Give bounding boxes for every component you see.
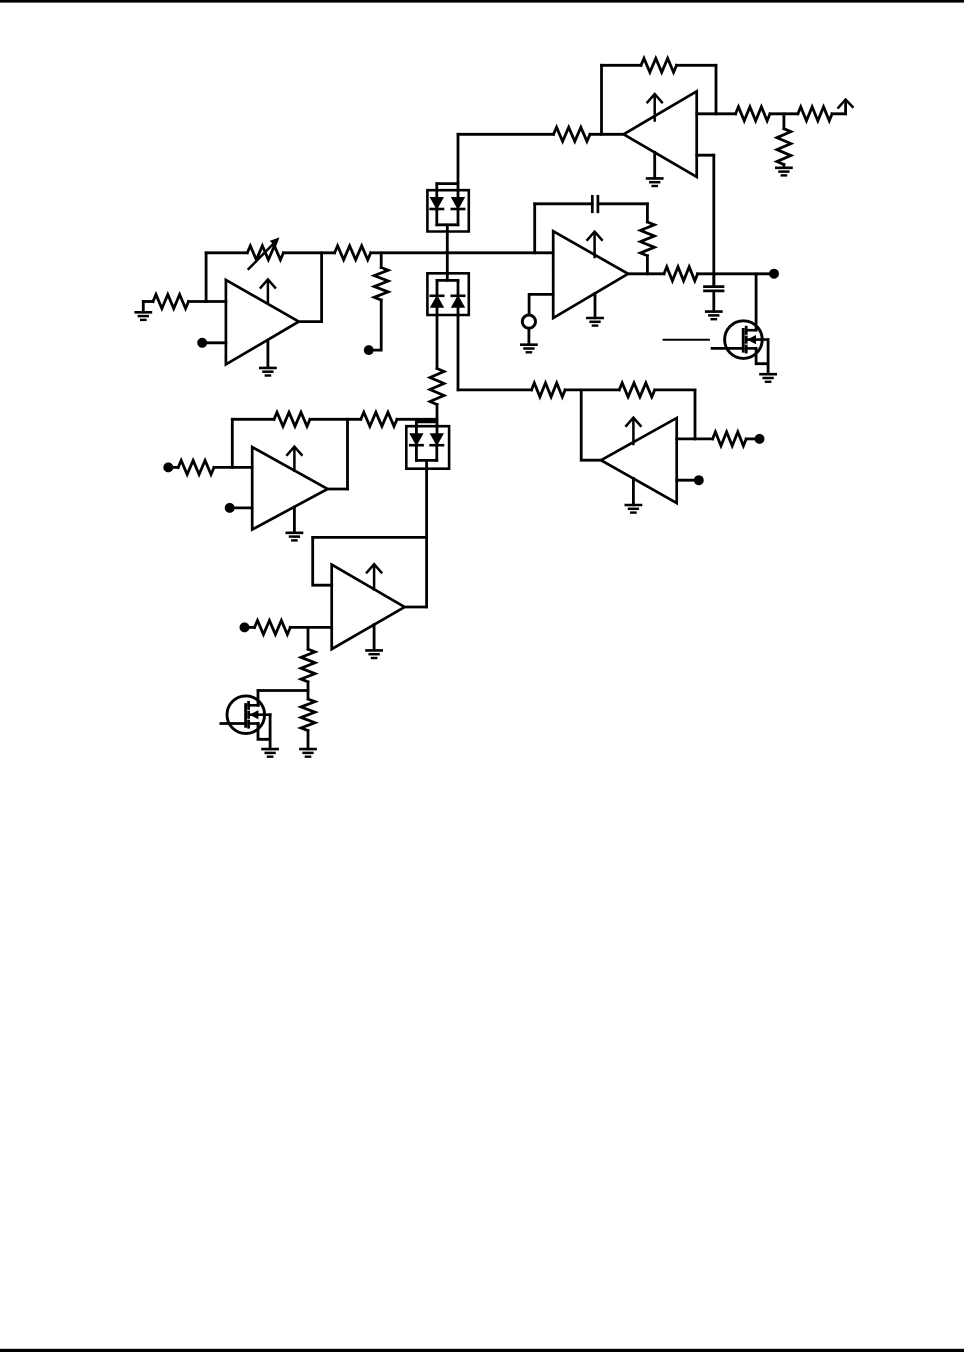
wire DB3 exit down to U6 loop [425,460,428,537]
wire DB2 right exit down [457,307,460,390]
DB1 top tie bar [437,182,458,185]
wire U1 feedback left vertical [600,65,603,134]
wire R18 to U6 [290,626,331,629]
wire dot to R15 [173,466,178,469]
ground below input port [521,328,536,352]
wire R16 to R17 [310,418,361,421]
resistor R9 [430,369,444,405]
ground below U5 [287,507,302,540]
wire Q2 drain up [257,691,260,706]
wire U1 non-inverting input [697,154,714,157]
wire feedback top left [602,64,642,67]
wire U3 output up leg [581,390,601,460]
ground below U6 [367,625,382,658]
diode pack DB1 box [427,190,468,231]
DB1 left column upper [435,184,438,198]
wire U3 node to R12 [695,437,713,440]
wire feedback top left [232,418,274,421]
page bottom border line [0,1349,964,1352]
wire feedback right vertical [715,65,718,114]
wire U2 feedback left vertical [205,253,208,302]
wire U5 feedback left vertical [231,419,234,467]
wire U3 lower terminal [677,479,695,482]
DB3 left column lower [415,445,418,460]
op-amp U1 [624,91,697,177]
wire U1 output [590,133,624,136]
resistor R19 (divider top) [301,649,315,682]
wire Q2 body down [269,715,272,749]
ground below R20 [300,731,315,757]
wire U4 output [628,272,664,275]
wire R14 to output node [698,272,769,275]
wire R15 to U5 [214,466,252,469]
wire dot to R18 [249,626,255,629]
DB2 left column upper [436,280,439,295]
resistor R12 (U3 output) [713,432,747,446]
resistor R6 (U2 input) [153,295,189,309]
wire U6 feedback left vertical [313,537,332,585]
diode D3b [431,434,443,445]
transistor Q2 [227,696,270,734]
wire U4 non-inverting input [529,294,553,314]
ground below R4 [776,165,791,176]
resistor R5 (U1 output) [554,127,590,141]
variable resistor RV1 [247,237,283,269]
resistor R16 (U5 feedback) [274,412,310,426]
ground below U4 [587,293,602,325]
diode D2a [431,296,443,307]
wire signal bus [371,251,554,254]
capacitor C2 [705,274,724,312]
resistor R18 (U6 input) [255,620,291,634]
wire ground to R6 [143,300,153,303]
op-amp U2 [226,279,299,364]
wire U1 input down to C2 node [712,155,715,286]
resistor R7 (bus) [335,246,371,260]
resistor R1 (U1 feedback) [641,58,677,72]
node output terminal dot B [769,269,779,279]
wire RV1 to node [283,251,334,254]
wire U6 feedback right vertical [425,537,428,607]
resistor R8 (hanging) [374,253,388,300]
wire R2 to node A [770,112,798,115]
ground below U3 [626,478,641,512]
DB1 right column lower [457,209,460,225]
wire DB2 to R10 [458,388,532,391]
wire R8 down [371,300,382,350]
diode D2b [452,296,464,307]
wire R13 to output [646,256,649,274]
diode D1a [431,198,443,209]
diode D1b [452,198,464,209]
node output terminal dot [755,434,765,444]
wire divider node [307,682,310,699]
node U5 input terminal dot [163,462,173,472]
wire feedback right vertical [346,419,349,489]
ground below U1 [647,152,662,186]
transistor Q1 [725,321,768,359]
wire C1 to right vertical [598,202,648,205]
ground below Q2 [263,749,278,757]
node terminal dot below R8 [364,345,374,355]
wire gate label line [664,339,709,341]
wire Q1 source step [756,348,768,363]
DB1 left column lower [435,209,438,225]
resistor R3 [798,107,832,121]
wire U6 feedback top [313,536,427,539]
DB3 bottom tie bar [416,459,436,462]
wire U3 inverting input stub [677,437,695,440]
diode pack DB3 box [406,426,449,469]
wire DB1 to signal bus [446,225,449,253]
wire Q1 gate stub [712,347,743,350]
wire bus into diode pack DB2 [446,253,449,281]
wire R17 to diode pack DB3 [397,418,437,421]
wire down to U3 input [694,390,697,439]
wire R9 into diode pack DB3 [436,405,439,434]
wire down into diode pack D1 [457,134,460,198]
DB3 top tie bar [416,420,436,423]
node U6 input terminal dot [240,622,250,632]
op-amp U4 [553,231,628,318]
wire feedback top to C1 [535,202,593,205]
node U5 lower input dot [225,503,253,513]
wire U6 output [405,606,427,609]
wire U2 output up to bus [320,253,323,322]
wire feedback top right [677,64,717,67]
resistor R13 (U4 feedback) [640,222,654,256]
resistor R10 [532,383,566,397]
ground below U2 [260,341,275,376]
wire divider down [307,627,310,649]
wire feedback to RV1 [206,251,247,254]
wire R3 to input arrow [832,112,846,115]
node U3 lower terminal dot [694,475,704,485]
wire R5 to diode pack D1 [458,133,554,136]
op-amp U5 [252,447,327,530]
DB3 right column lower [435,445,438,460]
resistor R11 [619,383,655,397]
ground below Q1 [761,374,776,382]
ground at U2 input [136,302,151,320]
wire R6 to U2 [189,300,226,303]
wire R12 to output dot [746,437,755,440]
DB2 top tie bar [437,279,458,282]
wire U1 input to R2 [716,112,736,115]
diode pack DB2 box [427,273,468,315]
DB2 right column upper [457,280,460,295]
wire R11 right [655,388,695,391]
wire R10 to R11 [565,388,619,391]
resistor R4 (to ground) [777,114,791,165]
op-amp U6 [332,564,405,649]
resistor R20 (divider bottom) [301,699,315,731]
resistor R14 (U4 output) [664,267,698,281]
wire DB2 left exit to R9 [436,307,439,369]
wire U5 output [328,488,348,491]
input port circle [522,315,535,328]
wire Q1 body down [767,340,770,374]
DB3 left column upper [415,422,418,434]
wire U4 feedback left vertical [533,204,536,253]
wire Q2 gate stub [221,722,246,725]
input terminal arrow (up) [838,100,852,114]
wire Q1 drain up to output node [755,274,758,330]
wire node to Q2 drain [258,689,308,692]
wire U1 inverting input stub [697,112,716,115]
wire Q2 source step [258,724,270,740]
wire feedback right vertical [646,204,649,222]
resistor R17 [361,412,397,426]
capacitor C1 [592,196,598,212]
diode D3a [410,434,422,445]
ground below C2 [706,312,721,320]
resistor R2 [736,107,770,121]
page top border line [0,0,964,3]
op-amp U3 [601,418,677,503]
node U2 lower input dot [197,338,226,348]
wire U2 output [299,320,322,323]
DB1 bottom tie bar [437,223,458,226]
resistor R15 (U5 input) [178,460,214,474]
